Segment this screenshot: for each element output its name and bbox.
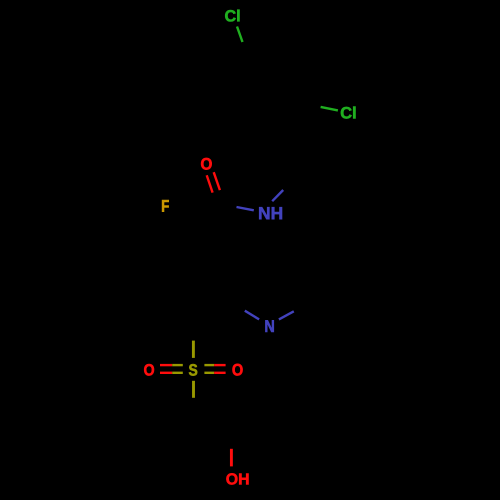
bond N2-C upper-right (nitrogen half) [279,311,294,319]
bond Cl2-C (chlorine half) [321,107,338,111]
atom Cl2 (right chlorine label) [341,107,356,119]
atom N1 (amide NH label) [259,207,282,219]
bond C=O1 line 1 (oxygen half) [207,175,213,192]
bond S1=O3 upper line, sulfur half [204,364,214,366]
bond N1-CH2 benzylic (nitrogen half) [272,190,283,201]
bond S1=O3 upper line, oxygen half [214,364,225,366]
bond C(=O)-N1 (nitrogen half) [237,207,254,210]
bond S1=O2 lower line, oxygen half [160,372,172,374]
atom O2 (left sulfonyl oxygen label) [144,364,154,376]
bond S1=O2 lower line, sulfur half [172,372,183,374]
bond S1=O2 upper line, oxygen half [160,364,172,366]
atom S1 (sulfonyl sulfur label) [189,364,197,376]
atom O1 (carbonyl oxygen label) [201,158,212,170]
atom Cl1 (top chlorine label) [225,10,239,22]
atom N2 (ring nitrogen label) [265,320,273,332]
bond Cl1-C (chlorine half) [237,27,243,43]
bond S1=O2 upper line, sulfur half [172,364,183,366]
bond S1=O3 lower line, oxygen half [214,372,225,374]
bond C-N2 upper-left (nitrogen half) [245,311,259,320]
atom O3 (right sulfonyl oxygen label) [233,364,243,376]
bond S1-CH2 (sulfur half, below S) [192,381,195,398]
atom F1 (fluorine label) [162,200,169,212]
atom O4 (hydroxyl OH label) [226,473,248,484]
bond C-S1 (sulfur half, above S) [192,341,195,358]
bond S1=O3 lower line, sulfur half [204,372,214,374]
bond CH2-O4 (oxygen half, vertical) [230,449,233,467]
bond C=O1 line 2 (oxygen half) [214,172,220,190]
